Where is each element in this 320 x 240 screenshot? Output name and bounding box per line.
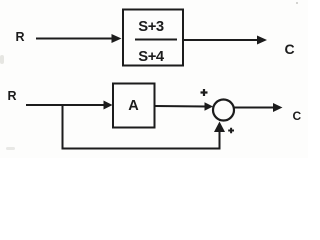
svg-text:C: C xyxy=(293,109,302,123)
svg-text:S+4: S+4 xyxy=(138,49,165,65)
svg-text:C: C xyxy=(285,41,295,57)
svg-text:R: R xyxy=(16,30,25,44)
block A xyxy=(113,84,155,128)
arrowhead to node C (bottom) xyxy=(273,103,283,112)
summing junction xyxy=(213,100,234,121)
wire summing junction to C xyxy=(235,107,275,109)
arrowhead to node C (top) xyxy=(257,36,267,45)
svg-text:S+3: S+3 xyxy=(138,19,164,35)
arrowhead into block G1 xyxy=(112,34,122,43)
wire block A to summing junction xyxy=(155,105,207,108)
faint scan smudge (bottom left) xyxy=(6,147,15,150)
plus sign (feedback input) xyxy=(228,128,234,134)
faint scan smudge (left edge) xyxy=(0,55,4,64)
wire block G1 to C xyxy=(184,39,258,41)
wire feedback (bottom run) xyxy=(62,148,221,150)
wire feedback tap (vertical drop) xyxy=(62,104,64,150)
block G1 (S+3)/(S+4) xyxy=(123,10,183,66)
svg-text:A: A xyxy=(128,98,139,114)
arrowhead into summing junction (feedback) xyxy=(214,122,225,133)
plus sign (forward input) xyxy=(201,89,208,96)
svg-text:R: R xyxy=(8,89,17,103)
wire R to block G1 xyxy=(36,38,113,40)
arrowhead into block A xyxy=(104,101,113,110)
arrowhead into summing junction (forward) xyxy=(205,102,214,110)
wire feedback riser xyxy=(219,129,221,150)
fraction bar xyxy=(135,39,177,41)
wire R to block A xyxy=(26,104,105,106)
faint scan dot (top right) xyxy=(296,2,298,4)
